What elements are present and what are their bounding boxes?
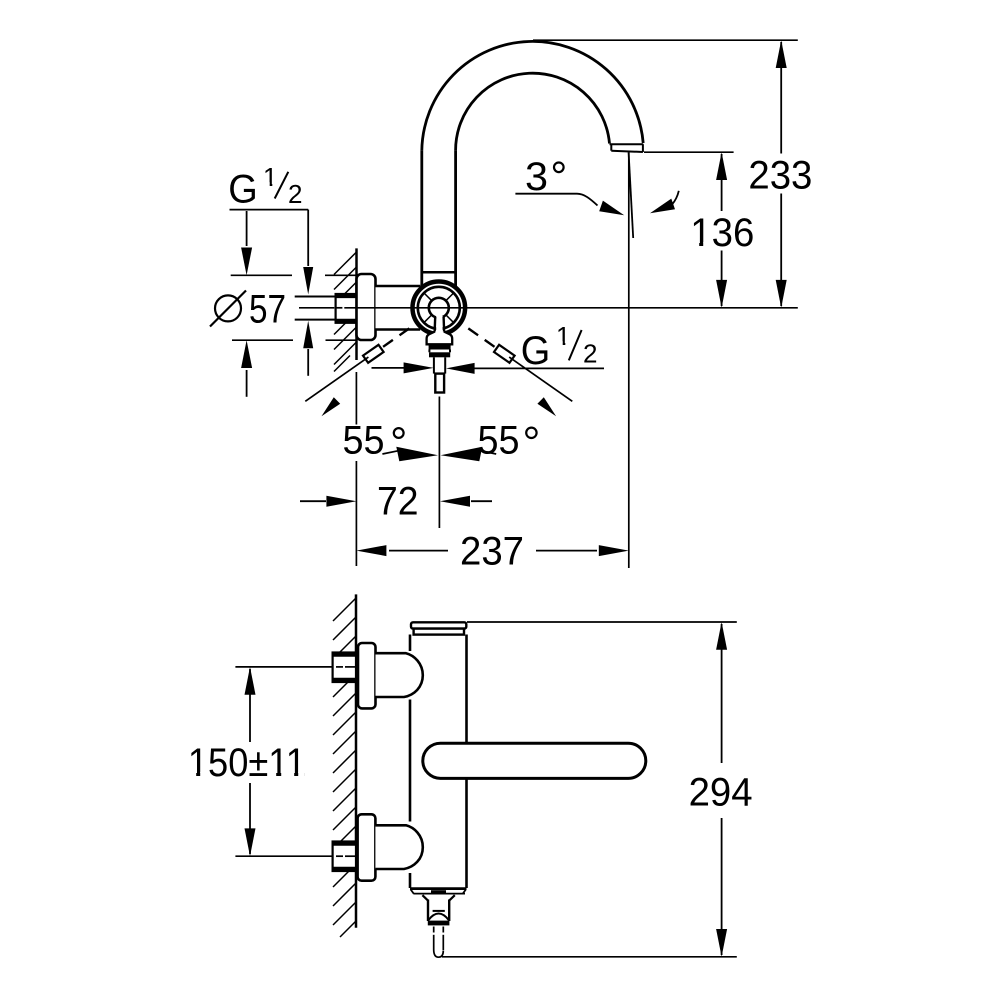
- svg-text:150±11: 150±11: [188, 741, 306, 785]
- 136 arrows: [716, 152, 727, 180]
- G1/2 left arrow (points right): [372, 362, 434, 373]
- 237 arrows: [356, 545, 386, 556]
- 294 dimension line: [721, 624, 723, 955]
- 55deg leg line left: [305, 357, 368, 401]
- ghost lever dashes right: [468, 328, 494, 346]
- hex nut (top view): [336, 294, 357, 323]
- G1/2 label top-left: [228, 162, 302, 212]
- 3deg stream tilted: [629, 153, 634, 239]
- drip dashes: [434, 927, 444, 951]
- outlet thread band 2: [429, 352, 450, 357]
- 55deg outer arrow left: [322, 397, 341, 416]
- aerator dome flat top: [433, 910, 445, 912]
- 55deg outer arrow right: [537, 397, 556, 416]
- svg-text:136: 136: [690, 211, 754, 255]
- 3deg degree circle: [554, 163, 564, 173]
- 3deg leader and left arc: [515, 194, 597, 206]
- svg-text:57: 57: [249, 287, 286, 331]
- lever handle (bottom view): [423, 743, 646, 778]
- top cap band: [414, 629, 464, 635]
- lever axis extension line: [438, 397, 440, 529]
- 233 extension top: [533, 39, 798, 41]
- outlet plate: [411, 889, 466, 893]
- outlet dark wedge: [431, 890, 446, 894]
- top escutcheon (bottom view): [358, 643, 376, 708]
- wall hatch (top view): [334, 252, 357, 372]
- top cap plate: [411, 622, 466, 628]
- 294 extension top: [467, 621, 737, 623]
- escutcheon flange (top view): [357, 274, 376, 340]
- ghost knob right: [494, 345, 515, 363]
- degree circle right: [526, 428, 536, 438]
- 294 arrows: [716, 622, 727, 650]
- d57 arrow bottom: [241, 340, 252, 397]
- wall face line (top view): [355, 248, 358, 360]
- top adapter bell: [376, 653, 423, 697]
- lever stem: [434, 357, 445, 373]
- drip curve: [434, 950, 444, 958]
- svg-text:294: 294: [689, 770, 753, 814]
- svg-text:55: 55: [343, 419, 385, 463]
- hex nut bottom (bottom view): [333, 842, 356, 872]
- G1/2 pipe stub in wall (top view): [295, 297, 336, 320]
- 3deg left arrowhead: [599, 201, 624, 216]
- cartridge small circle: [429, 298, 449, 318]
- svg-text:237: 237: [460, 529, 524, 573]
- lever neck: [435, 316, 445, 333]
- d57 extension lines: [231, 275, 357, 340]
- diameter symbol: [210, 291, 246, 327]
- G1/2 right arrow (points left): [446, 363, 475, 374]
- 3deg right arc: [672, 191, 679, 205]
- wall face extension line: [355, 372, 357, 566]
- bottom escutcheon (bottom view): [358, 814, 376, 880]
- svg-text:G: G: [228, 168, 257, 212]
- 55deg leg line right: [509, 357, 572, 401]
- G1/2 fraction slash right: [569, 330, 582, 360]
- ghost lever dashes left: [383, 328, 409, 346]
- spout vertical pipe: [422, 151, 456, 288]
- aerator end band: [428, 921, 450, 926]
- svg-text:55: 55: [478, 419, 520, 463]
- svg-text:1: 1: [263, 162, 277, 192]
- 72 dimension: [300, 496, 492, 507]
- wall hatch (bottom view): [333, 598, 356, 937]
- spout arch inner: [456, 73, 610, 151]
- 294 extension bottom: [442, 956, 737, 958]
- degree circle left: [394, 428, 404, 438]
- spokes: [424, 293, 454, 323]
- 233 arrows: [776, 40, 787, 68]
- spout outlet aerator: [610, 144, 644, 152]
- aerator funnel chamfers: [422, 895, 454, 900]
- spout arch outer: [422, 41, 643, 150]
- 136 dimension line: [721, 154, 723, 306]
- 233 dimension line: [780, 42, 782, 306]
- ghost knob left: [363, 345, 384, 363]
- aerator dome: [428, 914, 449, 921]
- valve body ring: [418, 287, 460, 329]
- body bottom edge: [410, 887, 467, 890]
- wall face line (bottom view): [355, 594, 358, 927]
- 55deg axis arrow left: [382, 447, 438, 462]
- 150 dimension line: [249, 669, 251, 854]
- G1/2 label right: [521, 321, 598, 373]
- stream vertical / 237 right extension: [628, 153, 630, 569]
- G1/2 leader arrow down: [303, 210, 313, 295]
- 55deg axis arrow right: [441, 447, 497, 462]
- 3deg right arrowhead: [650, 199, 675, 214]
- 237 dimension line: [389, 550, 597, 552]
- svg-text:2: 2: [583, 339, 597, 369]
- valve body outer circle: [413, 282, 466, 335]
- aerator cup walls: [428, 900, 449, 922]
- svg-text:233: 233: [748, 153, 812, 197]
- G1/2 leader underline top-left: [230, 209, 309, 211]
- bottom adapter bell: [375, 825, 422, 869]
- body cylinder (bottom view): [410, 635, 467, 889]
- outlet band gap: [429, 350, 450, 353]
- 150 arrows: [245, 667, 256, 695]
- G1/2 right underline: [474, 367, 604, 369]
- d57 arrow top: [241, 211, 252, 275]
- G1/2 stub arrow up: [303, 321, 313, 376]
- svg-text:3: 3: [525, 155, 548, 199]
- lever knob end: [435, 374, 444, 393]
- body re-stroke edges: [410, 635, 467, 889]
- svg-text:1: 1: [556, 321, 570, 351]
- svg-text:G: G: [521, 329, 551, 373]
- connection cylinder (top view): [376, 286, 421, 330]
- 136 extension top: [644, 151, 734, 153]
- outlet collar: [427, 332, 453, 345]
- centerline axis (horizontal): [299, 307, 798, 309]
- font foot patches (match target's footless 1s): [190, 182, 710, 777]
- outlet thread band 1: [429, 344, 451, 349]
- 150 extension lines: [235, 667, 356, 856]
- svg-text:2: 2: [288, 179, 302, 209]
- G1/2 fraction slash top-left: [275, 172, 289, 199]
- svg-text:72: 72: [377, 480, 419, 524]
- hex nut top (bottom view): [333, 653, 356, 683]
